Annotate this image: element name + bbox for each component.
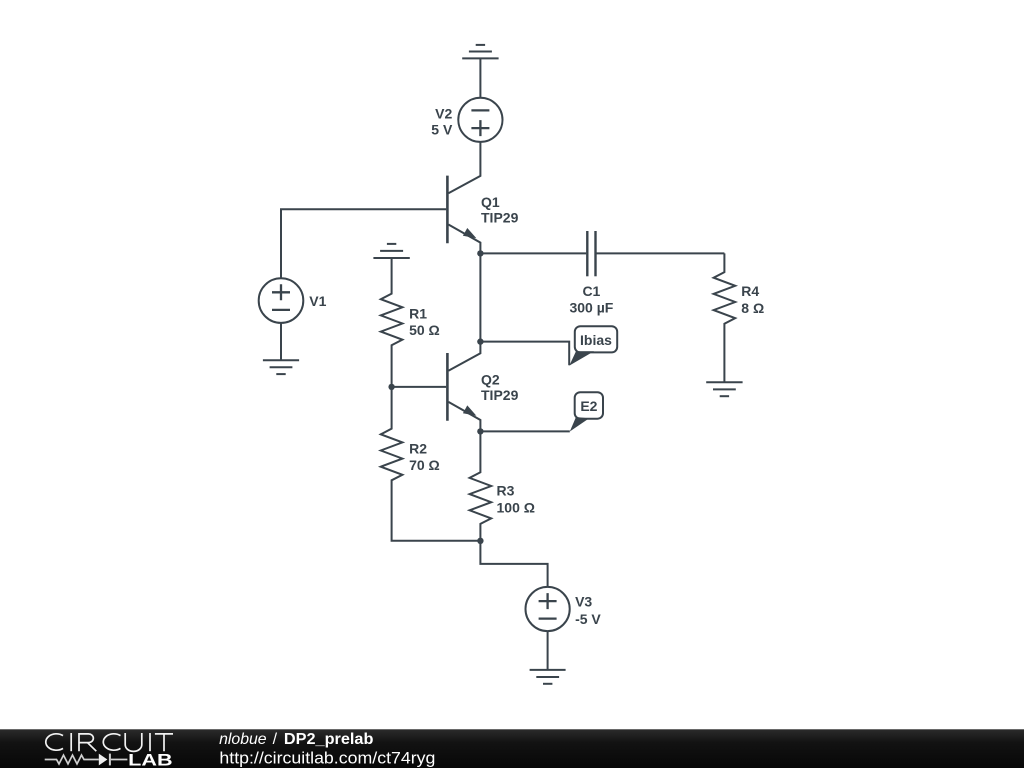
svg-text:TIP29: TIP29 [481,387,519,403]
node D (R2/R3/V3) [477,538,483,544]
wire C1 to R4 [597,252,725,254]
transistor Q2 [447,342,480,432]
svg-text:V2: V2 [435,105,452,121]
svg-text:C1: C1 [582,283,600,299]
ground (below R4) [706,382,742,396]
svg-text:50 Ω: 50 Ω [409,322,440,338]
wire node B to Q2 base [392,386,447,388]
node B (R1/R2/base) [388,384,394,390]
resistor R4 [714,253,736,382]
svg-text:300 µF: 300 µF [569,299,613,315]
svg-text:R2: R2 [409,441,427,457]
svg-text:Ibias: Ibias [580,332,612,348]
wire V3 to ground [547,631,549,670]
svg-text:100 Ω: 100 Ω [497,500,535,516]
svg-text:70 Ω: 70 Ω [409,457,440,473]
ground (above R1, flipped) [373,244,409,258]
voltage source V2 [458,98,502,142]
svg-text:8 Ω: 8 Ω [741,300,764,316]
svg-text:TIP29: TIP29 [481,210,519,226]
wire node A to C1 [480,252,586,254]
node A (Q1 emitter / output) [477,250,483,256]
transistor Q1 [447,176,480,254]
wire node A to node Ibias [479,253,481,341]
node Ibias [477,338,483,344]
flag Ibias [569,326,617,365]
resistor R2 [381,387,481,541]
svg-text:nlobue: nlobue [219,731,267,748]
svg-text:LAB: LAB [128,752,173,768]
wire V1 to ground [280,323,282,360]
svg-text:/: / [273,731,278,748]
svg-text:R1: R1 [409,305,427,321]
svg-text:Q1: Q1 [481,194,500,210]
wire V1 to Q1 base [281,209,446,278]
svg-text:5 V: 5 V [431,122,453,138]
wire node Ibias to flag [480,342,569,366]
logo CIRCUIT (thin stroke letters) [46,733,173,751]
svg-text:V1: V1 [309,293,326,309]
node C (Q2 emitter) [477,428,483,434]
svg-text:R4: R4 [741,283,759,299]
wire ground to V2 top [479,58,481,97]
resistor R3 [470,431,492,540]
logo resistor-diode glyph [45,754,128,766]
svg-text:E2: E2 [580,398,597,414]
capacitor C1 [587,231,595,276]
wire node C to flag E2 [480,430,569,432]
footer bar [0,729,1024,768]
ground (below V3) [530,670,566,684]
svg-text:V3: V3 [575,593,592,609]
svg-text:-5 V: -5 V [575,611,601,627]
svg-text:Q2: Q2 [481,372,500,388]
ground (below V1) [263,360,299,374]
voltage source V1 [259,278,304,323]
wire V2 to Q1 collector [448,142,480,193]
svg-text:http://circuitlab.com/ct74ryg: http://circuitlab.com/ct74ryg [219,749,435,767]
svg-text:R3: R3 [497,483,515,499]
voltage source V3 [526,587,570,631]
wire node D to V3 [480,541,547,587]
svg-text:DP2_prelab: DP2_prelab [284,731,374,748]
ground (top, above V2, flipped) [462,45,498,59]
resistor R1 [381,258,403,387]
flag E2 [570,392,603,431]
